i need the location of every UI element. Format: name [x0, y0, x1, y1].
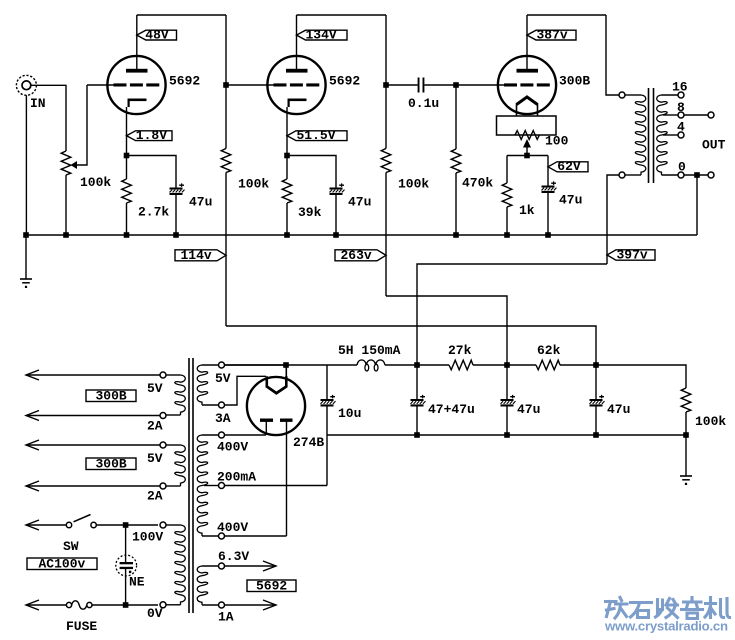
node: 0 tap ground junction [694, 172, 700, 178]
V4 filament legs [265, 376, 268, 387]
resistor R2 100k (V1 plate load) upper wire [225, 85, 227, 149]
svg-text:1k: 1k [519, 203, 535, 218]
output terminal (0) [708, 172, 714, 178]
wire junction to V2 grid [226, 84, 274, 86]
wire C7 to bottom rail [506, 407, 508, 436]
switch SW line with arrow [26, 524, 66, 526]
svg-text:2A: 2A [147, 419, 163, 434]
svg-text:10u: 10u [338, 406, 361, 421]
svg-text:300B: 300B [559, 74, 590, 89]
node: bus junctions [23, 232, 29, 238]
flag label 387v [527, 30, 576, 40]
wire cathode node to bypass cap C2 [287, 156, 336, 188]
resistor R6 39k wire top [286, 156, 288, 180]
terminal 5V (rect) [219, 362, 225, 368]
terminal 8 [678, 112, 684, 118]
switch SW throw [91, 522, 96, 527]
triode V2 5692 [267, 56, 325, 114]
svg-text:200mA: 200mA [217, 470, 256, 485]
wire R6 bottom to bus [286, 203, 288, 235]
hum pot wiper arrow [523, 139, 531, 148]
PT core [188, 358, 190, 613]
node: 300B grid junction [453, 82, 459, 88]
wire R8 to bus [506, 207, 508, 235]
switch SW lever [74, 515, 91, 522]
svg-text:263v: 263v [341, 248, 372, 263]
V4 left plate lead [265, 421, 267, 435]
svg-text:5V: 5V [147, 451, 163, 466]
wire OPT primary bottom to B+ 397v line [607, 175, 619, 264]
neon lamp NE envelope (dotted) [116, 555, 137, 576]
watermark chinese logo [606, 598, 730, 619]
wire grid V1 [87, 84, 114, 86]
wire to 300B grid [456, 84, 504, 86]
svg-text:FUSE: FUSE [66, 619, 97, 634]
wire 5V terminal to B+ node [225, 364, 286, 366]
resistor R9 27k zigzag [449, 360, 473, 370]
terminal 6.3V [219, 563, 225, 569]
OPT secondary 4 ohm tap stub [663, 134, 678, 136]
wire C8 to bottom rail [595, 407, 597, 436]
svg-text:5692: 5692 [256, 579, 287, 594]
flag label 51.5V [287, 131, 347, 141]
svg-text:2.7k: 2.7k [138, 205, 169, 220]
svg-text:0: 0 [678, 160, 686, 175]
resistor R2 100k zigzag [221, 149, 231, 173]
ground symbol (PSU) [680, 475, 692, 477]
resistor R6 39k zigzag [282, 179, 292, 203]
wire primary bottom to terminal [625, 174, 641, 176]
svg-text:16: 16 [672, 80, 688, 95]
pot wiper arrow [77, 85, 88, 165]
wire terminal to primary winding [625, 94, 641, 96]
resistor R5 100k (V2 plate load) wire [385, 85, 387, 149]
resistor R11 100k bleeder zigzag [681, 388, 691, 412]
resistor R5 100k zigzag [381, 149, 391, 173]
terminal 0 [678, 172, 684, 178]
box label 5692 (heaters) [247, 580, 296, 592]
wire node B to 62k [507, 364, 536, 366]
PT primary winding [175, 525, 185, 605]
PT HT winding 400-0-400 [197, 435, 207, 536]
PT 5V/3A rectifier filament winding [197, 365, 207, 405]
svg-text:397v: 397v [617, 248, 648, 263]
rectifier V4 274B envelope [247, 377, 305, 435]
resistor R3 2.7k zigzag [122, 179, 132, 203]
OPT primary top terminal [619, 92, 625, 98]
node: V2 cathode junction [284, 153, 290, 159]
svg-text:27k: 27k [448, 343, 472, 358]
node: rectifier filament B+ takeoff [283, 362, 289, 368]
wire coupling cap to 300B grid node [424, 84, 456, 86]
box label AC100v [27, 558, 97, 570]
wire V3 plate lead [526, 15, 528, 69]
wire R2 bottom crossing bus to 114v line [225, 173, 227, 327]
svg-text:100k: 100k [695, 414, 726, 429]
OPT secondary 0 tap stub [662, 174, 679, 176]
wire bleeder ground lead [685, 435, 687, 476]
wire B+ top rail stage1 [137, 14, 226, 16]
svg-text:5V: 5V [215, 371, 231, 386]
OPT primary winding [635, 95, 645, 175]
svg-text:8: 8 [677, 100, 685, 115]
resistor R3 2.7k wire top [126, 156, 128, 180]
output terminal (8) [708, 112, 714, 118]
wire neon to fuse line [125, 569, 127, 605]
node: primary neutral junction [123, 602, 129, 608]
wire node A to 27k [417, 364, 449, 366]
svg-text:www.crystalradio.cn: www.crystalradio.cn [604, 619, 728, 634]
OPT core [648, 88, 650, 183]
node A (397v) [414, 362, 420, 368]
V3 grid dashes [504, 83, 517, 86]
capacitor C4 47u (300B cathode) [542, 186, 555, 188]
svg-text:4: 4 [677, 120, 685, 135]
wire 300B plate to OPT primary top [606, 15, 619, 95]
capacitor C8 47u [590, 399, 603, 401]
wire jack ground lead [25, 95, 27, 235]
svg-text:47u: 47u [607, 402, 630, 417]
resistor R10 62k zigzag [536, 360, 560, 370]
svg-text:IN: IN [30, 96, 46, 111]
wire V1 cathode lead [126, 107, 128, 156]
flag label 114v (points right) [175, 250, 226, 261]
hum pot 100 zigzag [515, 131, 539, 140]
wire stage2 plate node vertical [385, 15, 387, 85]
wire 400V bottom to right plate [225, 535, 287, 537]
svg-text:6.3V: 6.3V [218, 549, 249, 564]
svg-text:48V: 48V [145, 27, 169, 42]
wire choke to node A [385, 364, 417, 366]
neon lamp electrodes [120, 562, 133, 564]
offpage arrow 5V-1a [26, 374, 160, 376]
flag label 1.8V [127, 131, 173, 141]
OPT primary bottom terminal [619, 172, 625, 178]
flag label 48V [137, 30, 177, 40]
svg-text:1.8V: 1.8V [136, 128, 167, 143]
svg-text:AC100v: AC100v [39, 557, 86, 572]
flag label 263v (points right) [335, 250, 386, 261]
svg-text:2A: 2A [147, 489, 163, 504]
wire 8 ohm tap to output terminal [684, 114, 708, 116]
node: bottom rail junctions [414, 432, 420, 438]
wire fuse to junction [92, 604, 158, 606]
wire 27k to node B [473, 364, 507, 366]
svg-text:51.5V: 51.5V [297, 128, 336, 143]
offpage arrow 1A [225, 604, 276, 606]
capacitor C7 47u [501, 399, 514, 401]
svg-text:300B: 300B [96, 457, 127, 472]
triode V1 5692 [107, 56, 165, 114]
capacitor C5 10u wire top [326, 365, 328, 399]
wire neon branch [125, 525, 127, 563]
wire switch to junction [96, 524, 158, 526]
wire V2 plate lead [296, 15, 298, 69]
wire V1 plate lead [136, 15, 138, 69]
wire C5 bottom down to center tap line [326, 407, 328, 486]
node: V2 plate / coupling junction [383, 82, 389, 88]
wire C1 bottom to bus [175, 195, 177, 235]
terminal 5V-2a [160, 442, 166, 448]
wire 400V top to left plate [225, 434, 266, 436]
terminal 1A [219, 602, 225, 608]
capacitor C2 47u [330, 188, 343, 190]
node: V1 plate / V2 grid junction [223, 82, 229, 88]
wire center tap to filter return [225, 485, 327, 487]
OPT secondary winding [657, 95, 667, 175]
wire node C to bleeder [596, 365, 686, 388]
capacitor C8 47u wire [595, 365, 597, 399]
terminal 400V top [219, 432, 225, 438]
terminal 400V bottom [219, 533, 225, 539]
filament hum pot box [497, 116, 557, 135]
terminal 5V-2b [160, 483, 166, 489]
svg-text:387v: 387v [537, 27, 568, 42]
svg-text:47u: 47u [348, 195, 371, 210]
terminal 0V [160, 602, 166, 608]
svg-text:100k: 100k [238, 177, 269, 192]
svg-text:47u: 47u [559, 193, 582, 208]
wire V2 plate node to coupling cap [386, 84, 418, 86]
coupling capacitor C3 0.1u [418, 78, 420, 93]
svg-text:400V: 400V [217, 440, 248, 455]
svg-text:100V: 100V [132, 530, 163, 545]
wire 62k to node C [560, 364, 596, 366]
wire V2 cathode lead [286, 107, 288, 156]
V4 right plate lead [286, 421, 288, 536]
svg-text:5692: 5692 [329, 74, 360, 89]
wire 3A terminal to filament [225, 376, 266, 405]
terminal 200mA center tap [219, 483, 225, 489]
offpage arrow 5V-1b [26, 415, 160, 417]
svg-text:47u: 47u [517, 402, 540, 417]
terminal 16 [678, 92, 684, 98]
fuse F1 [66, 602, 71, 607]
input jack J1 [16, 75, 36, 95]
svg-text:5692: 5692 [169, 74, 200, 89]
switch SW pole [66, 522, 71, 527]
svg-text:100k: 100k [80, 175, 111, 190]
wire cathode node split [507, 155, 548, 157]
resistor R7 470k grid leak wire [455, 85, 457, 149]
PT 6.3V winding [197, 566, 207, 605]
svg-text:274B: 274B [293, 435, 324, 450]
fuse line arrow [26, 604, 67, 606]
svg-text:1A: 1A [218, 610, 234, 625]
V4 filament V [267, 387, 287, 394]
resistor R8 1k wire [506, 156, 508, 184]
offpage arrow 6.3V [225, 565, 276, 567]
svg-text:47+47u: 47+47u [428, 402, 475, 417]
capacitor C5 10u [321, 399, 334, 401]
wire 0 tap to output terminal [684, 174, 708, 176]
wire to cathode cap C4 [547, 156, 549, 186]
offpage arrow 5V-2b [26, 485, 160, 487]
svg-text:100: 100 [545, 134, 569, 149]
capacitor C6 47+47u wire [416, 365, 418, 399]
node C (114v) [593, 362, 599, 368]
offpage arrow 5V-2a [26, 444, 160, 446]
svg-text:400V: 400V [217, 520, 248, 535]
terminal 5V-1a [160, 372, 166, 378]
V3 filament legs [516, 104, 518, 117]
wire B+ top rail output [527, 14, 606, 16]
volume pot 100k [61, 151, 71, 175]
svg-text:100k: 100k [398, 177, 429, 192]
wire R7 bottom to bus [455, 173, 457, 235]
svg-text:0.1u: 0.1u [408, 96, 439, 111]
wire rectifier output to filter [225, 364, 358, 366]
ground symbol (input) [25, 235, 27, 279]
choke L1 5H 150mA [357, 360, 385, 365]
wire 0-tap junction down to ground bus [696, 175, 698, 235]
PT 5V winding (left, 300B #2) [175, 445, 185, 486]
wire R3 bottom to bus [126, 203, 128, 235]
flag label 62V [548, 162, 588, 172]
B+ 263v feed line [386, 296, 507, 365]
resistor R7 470k zigzag [451, 149, 461, 173]
svg-text:47u: 47u [189, 195, 212, 210]
svg-text:OUT: OUT [702, 138, 726, 153]
OPT secondary 16 ohm tap stub [662, 94, 679, 96]
svg-text:134V: 134V [306, 27, 337, 42]
wire R5 bottom crossing bus to 263v line [385, 173, 387, 297]
V3 filament tent [517, 97, 538, 105]
node B (263v) [504, 362, 510, 368]
box label 300B (heater 1) [86, 390, 136, 402]
B+ 114v feed line [226, 326, 596, 365]
OPT secondary 8 ohm tap stub [663, 114, 678, 116]
power triode V3 300B envelope [498, 56, 556, 114]
node: 300B cathode/filament center [524, 153, 530, 159]
svg-text:470k: 470k [462, 176, 493, 191]
V4 plate bars [260, 419, 273, 422]
capacitor C1 47u [170, 188, 183, 190]
svg-text:3A: 3A [215, 411, 231, 426]
svg-text:NE: NE [129, 575, 145, 590]
svg-text:5V: 5V [147, 381, 163, 396]
capacitor C7 47u wire [506, 365, 508, 399]
PT 5V winding (left, 300B #1) [175, 375, 185, 415]
terminal 100V [160, 522, 166, 528]
V3 plate bar [517, 69, 539, 73]
capacitor C6 47+47u [411, 399, 424, 401]
wire C4 to bus [547, 193, 549, 235]
terminal 3A (rect) [219, 402, 225, 408]
svg-text:300B: 300B [96, 389, 127, 404]
ground bus [26, 234, 697, 236]
svg-text:0V: 0V [147, 606, 163, 621]
wire C6 to bottom rail [416, 407, 418, 436]
svg-text:5H 150mA: 5H 150mA [338, 343, 401, 358]
svg-text:114v: 114v [181, 248, 212, 263]
wire C2 bottom to bus [335, 195, 337, 235]
svg-text:62k: 62k [537, 343, 561, 358]
wire pot bottom to ground bus [65, 175, 67, 235]
wire B+ top rail stage2 [297, 14, 387, 16]
node: V1 cathode junction [124, 153, 130, 159]
wire stage1 plate node vertical [225, 15, 227, 85]
svg-text:39k: 39k [298, 205, 322, 220]
wire cathode node to bypass cap C1 [127, 156, 177, 188]
B+ 397v feed line [417, 264, 607, 365]
wire bleeder to bottom rail [685, 412, 687, 435]
flag label 134V [297, 30, 348, 40]
terminal 5V-1b [160, 413, 166, 419]
neon lamp dot [129, 571, 131, 573]
PSU bottom rail [327, 434, 686, 436]
svg-text:SW: SW [63, 539, 79, 554]
flag label 397v [607, 250, 655, 260]
wire jack to volume pot top [31, 85, 66, 151]
box label 300B (heater 2) [86, 458, 136, 470]
svg-text:62V: 62V [557, 159, 581, 174]
node: primary hot junction [123, 522, 129, 528]
resistor R8 1k zigzag [502, 183, 512, 207]
terminal 4 [678, 132, 684, 138]
